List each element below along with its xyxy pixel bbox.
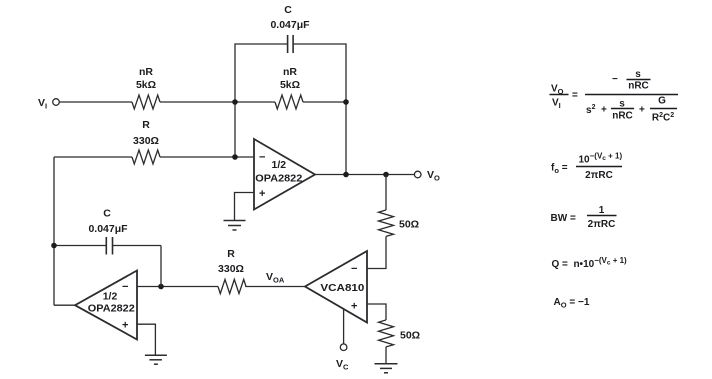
svg-text:nR: nR [283,66,297,78]
wire capacitor C1 right to node B down to output line [294,44,346,175]
wire VCA810 noninverting input to 50ohm bottom [367,304,386,320]
svg-text:+: + [601,105,607,116]
wire nR1 to node A to nR2 [160,101,275,103]
svg-text:330Ω: 330Ω [133,135,159,147]
svg-text:−: − [351,263,357,275]
ground below opamp2 [145,355,167,364]
capacitor C2 [106,237,112,255]
svg-text:VI: VI [38,97,47,111]
svg-text:Q = n•10−(Vc + 1): Q = n•10−(Vc + 1) [552,256,628,270]
equation 2 corner frequency f_o [551,152,622,182]
svg-text:330Ω: 330Ω [218,263,244,275]
wire VCA810 gain control V_C [343,309,345,344]
svg-text:s: s [635,69,641,80]
svg-text:nR: nR [139,66,153,78]
svg-text:−: − [122,281,128,293]
svg-text:VCA810: VCA810 [320,282,364,294]
svg-text:nRC: nRC [612,111,633,122]
wire node A up to capacitor C1 left [235,44,287,102]
op-amp U3 VCA810 [305,251,367,323]
wire R2 to opamp2 inverting input [137,286,218,288]
wire R1 to opamp1 inverting input [160,156,254,158]
node at opamp1 inverting input dot [232,154,238,160]
svg-text:BW =: BW = [551,213,576,224]
wire node down from capacitor C2 [160,246,162,287]
svg-text:+: + [122,320,128,332]
terminal V_C [340,344,347,351]
resistor nR2 [275,95,303,109]
wire 50ohm bottom to ground [385,347,387,364]
svg-text:−: − [612,74,618,85]
wire VCA810 output to R2 [245,286,305,288]
node at opamp2 inverting input dot [158,284,164,290]
node B dot [343,99,349,105]
svg-text:=: = [572,90,578,101]
capacitor C1 [288,35,294,53]
svg-text:0.047μF: 0.047μF [270,19,310,31]
wire opamp1 output to V_O terminal [315,174,415,176]
svg-text:1: 1 [599,205,605,216]
svg-text:−: − [259,152,265,164]
terminal V_O [414,171,421,178]
svg-text:AO = −1: AO = −1 [554,297,590,310]
wire 50ohm top to VCA810 inverting input [367,236,386,268]
svg-text:C: C [284,4,292,16]
svg-text:50Ω: 50Ω [399,219,419,231]
node output feedback dot [343,172,349,178]
resistor 50ohm top [379,210,394,236]
svg-text:2πRC: 2πRC [588,219,616,230]
wire opamp2 output to left vertical [54,304,75,306]
resistor nR1 [132,95,160,109]
ground below opamp1 [224,221,246,231]
wire opamp1 noninverting input to ground [235,193,255,221]
wire nR2 to node B [303,101,346,103]
svg-text:VOA: VOA [266,271,285,285]
wire V_O node down to 50ohm top [385,175,387,211]
svg-text:50Ω: 50Ω [400,330,420,342]
svg-text:5kΩ: 5kΩ [280,79,300,91]
svg-text:+: + [351,301,357,313]
op-amp U2 OPA2822 (bottom, pointing left) [75,271,137,340]
resistor R2 [218,279,246,293]
svg-text:R2C2: R2C2 [652,112,674,124]
svg-text:nRC: nRC [628,81,649,92]
svg-text:+: + [639,105,645,116]
equation 3 bandwidth BW [551,205,617,230]
svg-text:OPA2822: OPA2822 [255,173,302,185]
wire capacitor C2 left [54,245,106,247]
svg-text:1/2: 1/2 [103,291,118,303]
terminal V_I [53,99,60,106]
op-amp U1 OPA2822 (top) [254,139,315,210]
svg-text:2πRC: 2πRC [585,170,613,181]
resistor R1 [132,150,160,164]
svg-text:VI: VI [552,98,561,111]
wire capacitor C2 right [113,245,161,247]
svg-text:VC: VC [336,358,349,372]
wire R1 left segment [54,156,132,158]
node C2 left dot [51,243,57,249]
node output to 50ohm dot [383,172,389,178]
svg-text:C: C [103,208,111,220]
wire V_I input to nR1 [59,101,132,103]
svg-text:R: R [227,248,235,260]
equation 1 transfer function V_O over V_I [550,69,679,124]
svg-text:G: G [658,96,666,107]
svg-text:VO: VO [427,169,440,183]
svg-text:0.047μF: 0.047μF [88,223,128,235]
svg-text:+: + [259,188,265,200]
svg-text:10−(Vc + 1): 10−(Vc + 1) [579,152,623,166]
node A dot [232,99,238,105]
resistor 50ohm bottom [379,320,394,347]
ground below 50ohm bottom [375,364,398,373]
wire node A down to opamp1 inverting input [234,102,236,157]
wire left vertical from R1 down to opamp2 output [53,157,55,305]
wire opamp2 noninverting input to ground [137,324,155,355]
svg-text:OPA2822: OPA2822 [88,303,135,315]
svg-text:R: R [142,119,150,131]
svg-text:5kΩ: 5kΩ [136,79,156,91]
svg-text:1/2: 1/2 [272,159,287,171]
svg-text:fo =: fo = [551,163,568,176]
svg-text:s2: s2 [586,104,596,116]
